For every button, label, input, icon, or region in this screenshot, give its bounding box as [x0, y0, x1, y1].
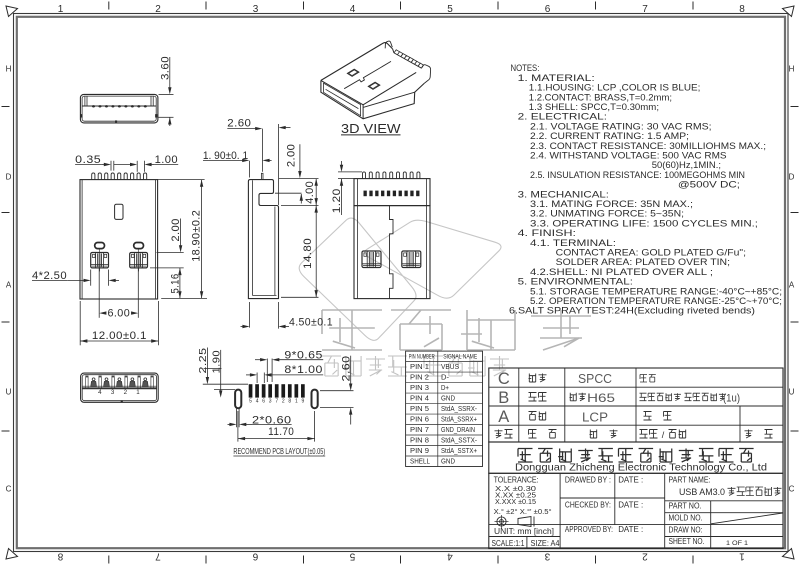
svg-text:4: 4: [256, 399, 259, 405]
svg-text:USB AM3.0: USB AM3.0: [679, 487, 725, 498]
svg-text:TOLERANCE:: TOLERANCE:: [494, 475, 539, 485]
svg-text:SCALE:1:1: SCALE:1:1: [492, 539, 525, 548]
svg-text:PIN 5: PIN 5: [410, 404, 429, 413]
svg-text:D: D: [6, 173, 12, 182]
view: side profile: [248, 180, 278, 299]
svg-text:5: 5: [349, 551, 355, 562]
svg-text:DRAWED BY :: DRAWED BY :: [565, 476, 611, 485]
svg-text:(1u): (1u): [723, 393, 740, 405]
svg-text:SHELL: SHELL: [410, 457, 430, 466]
svg-text:U: U: [789, 388, 795, 397]
svg-text:1: 1: [295, 399, 298, 405]
cn: 外壳: [529, 374, 536, 383]
svg-text:X.° ±2° X.°' ±0.5°: X.° ±2° X.°' ±0.5°: [494, 508, 552, 516]
svg-text:DATE :: DATE :: [618, 500, 643, 509]
svg-text:D+: D+: [441, 383, 449, 392]
svg-text:StdA_SSTX+: StdA_SSTX+: [441, 446, 477, 455]
center hole: [115, 204, 123, 219]
svg-text:2: 2: [282, 399, 285, 405]
3D tab upper: [385, 41, 392, 48]
svg-text:4.00: 4.00: [304, 181, 316, 204]
3D creases: [321, 80, 363, 118]
title block: [489, 473, 783, 548]
svg-text:SPCC: SPCC: [578, 371, 612, 386]
svg-text:14.80: 14.80: [302, 238, 314, 269]
back latch hole right: [402, 251, 421, 268]
cn: 黄铜 H65: [570, 393, 577, 401]
svg-text:SHEET NO.: SHEET NO.: [669, 537, 705, 546]
svg-text:6: 6: [545, 4, 551, 15]
svg-text:8: 8: [57, 551, 63, 562]
svg-text:2: 2: [642, 551, 648, 562]
svg-text:5: 5: [447, 4, 453, 15]
watermark small text 实物拍摄 品质保证: [332, 359, 337, 374]
pcb oval holes: [235, 390, 241, 409]
mating contacts: [92, 378, 95, 381]
svg-text:3D VIEW: 3D VIEW: [341, 121, 401, 136]
svg-text:6.SALT SPRAY TEST:24H(Exclud: 6.SALT SPRAY TEST:24H(Excluding riveted …: [509, 306, 755, 317]
svg-text:2: 2: [155, 4, 161, 15]
svg-text:H: H: [789, 65, 795, 74]
cn: 电镀/颜色: [640, 430, 648, 439]
svg-text:C: C: [789, 485, 795, 494]
svg-text:PIN 4: PIN 4: [410, 394, 429, 403]
svg-text:@500V DC;: @500V DC;: [678, 180, 740, 191]
mold no diagonal: [711, 513, 783, 524]
svg-text:GND: GND: [441, 394, 455, 403]
svg-text:StdA_SSTX-: StdA_SSTX-: [441, 436, 477, 445]
svg-text:1: 1: [136, 389, 140, 396]
svg-text:C: C: [498, 370, 510, 388]
cn: 序号: [495, 430, 503, 439]
svg-text:2.60: 2.60: [227, 117, 251, 129]
cn: 蓝 色: [644, 412, 652, 421]
svg-text:4.50±0.1: 4.50±0.1: [289, 317, 333, 329]
back latch hole left: [362, 251, 381, 268]
svg-text:PIN 3: PIN 3: [410, 383, 429, 392]
svg-text:PIN 8: PIN 8: [410, 436, 429, 445]
svg-text:11.70: 11.70: [268, 426, 294, 438]
view: front view body: [80, 180, 158, 299]
svg-text:4: 4: [447, 551, 453, 562]
back view 9 pins: [363, 172, 366, 179]
cn: 端子: [529, 393, 537, 402]
termination squares: [364, 191, 367, 197]
cn: 镀镍: [640, 375, 647, 383]
svg-text:3: 3: [253, 4, 259, 15]
svg-text:H: H: [6, 65, 12, 74]
border ticks left/right: [2, 106, 10, 108]
latch pills: [95, 243, 105, 249]
svg-text:D: D: [789, 173, 795, 182]
svg-text:Dongguan Zhicheng Electronic: Dongguan Zhicheng Electronic Technology …: [515, 463, 767, 474]
cn: 品 名: [529, 430, 537, 439]
svg-text:9: 9: [301, 399, 304, 405]
svg-text:PIN 6: PIN 6: [410, 415, 429, 424]
svg-text:DRAW NO:: DRAW NO:: [669, 525, 703, 534]
svg-text:8: 8: [739, 4, 745, 15]
svg-text:B: B: [498, 389, 509, 407]
svg-text:PIN NUMBER: PIN NUMBER: [409, 353, 435, 360]
svg-text:2: 2: [124, 389, 128, 396]
svg-text:18.90±0.2: 18.90±0.2: [190, 210, 202, 262]
cn company name 东莞市质成电子科技有限公司: [521, 451, 526, 461]
svg-text:PIN 1: PIN 1: [410, 362, 429, 371]
cn: 材 质: [590, 430, 597, 439]
svg-text:12.00±0.1: 12.00±0.1: [92, 330, 147, 342]
view: back view top block: [354, 179, 430, 206]
svg-text:GND: GND: [441, 457, 455, 466]
svg-text:1: 1: [739, 551, 745, 562]
cn: 基座: [529, 412, 537, 421]
watermark big text 质成电子: [333, 318, 355, 348]
svg-text:3: 3: [269, 399, 272, 405]
latch block right: [130, 253, 148, 268]
svg-text:DATE :: DATE :: [618, 476, 643, 485]
svg-text:RECOMMEND PCB LAYOUT(±0.05): RECOMMEND PCB LAYOUT(±0.05): [233, 446, 325, 456]
3D top holes: [347, 69, 359, 76]
svg-text:MOLD NO.: MOLD NO.: [669, 513, 703, 522]
svg-text:A: A: [6, 281, 12, 290]
corner centering arrows: [6, 6, 18, 17]
view: USB plug front face (top-left): [80, 94, 157, 123]
contact dots: [92, 105, 95, 107]
svg-text:3: 3: [544, 551, 550, 562]
svg-text:H65: H65: [587, 391, 615, 405]
svg-text:PIN 9: PIN 9: [410, 446, 429, 455]
svg-text:GND_DRAIN: GND_DRAIN: [441, 425, 475, 434]
svg-text:1: 1: [58, 4, 64, 15]
view: 3D isometric: [321, 43, 393, 81]
svg-text:6.00: 6.00: [108, 308, 131, 320]
svg-text:StdA_SSRX+: StdA_SSRX+: [441, 415, 477, 424]
svg-text:8: 8: [288, 399, 291, 405]
svg-text:7: 7: [275, 399, 278, 405]
svg-text:DATE :: DATE :: [618, 525, 643, 534]
watermark logo leaf 2: [365, 220, 501, 298]
company box: [489, 442, 783, 473]
svg-text:UNIT: mm [inch]: UNIT: mm [inch]: [494, 526, 554, 536]
svg-text:8*1.00: 8*1.00: [284, 364, 323, 376]
cn: 备 注: [745, 430, 753, 439]
svg-text:VBUS: VBUS: [441, 362, 459, 371]
dim 6.00: [98, 269, 100, 318]
svg-text:4: 4: [350, 4, 356, 15]
view: mating face: [81, 373, 159, 402]
watermark logo leaf 1: [299, 218, 416, 340]
svg-text:A: A: [789, 281, 795, 290]
dim 4.50±0.1: [249, 302, 251, 328]
svg-text:StdA_SSRX-: StdA_SSRX-: [441, 404, 477, 413]
svg-text:5: 5: [249, 399, 252, 405]
3D front opening inner: [324, 83, 361, 116]
svg-text:X.XXX ±0.15: X.XXX ±0.15: [495, 497, 536, 506]
svg-text:PIN 7: PIN 7: [410, 425, 429, 434]
svg-text:U: U: [6, 388, 12, 397]
dim 12.00: [79, 301, 81, 345]
projection symbol: [497, 517, 506, 526]
svg-text:D-: D-: [441, 373, 450, 382]
svg-text:SIZE: A4: SIZE: A4: [531, 539, 560, 548]
material table: [489, 368, 783, 442]
svg-text:CHECKED BY:: CHECKED BY:: [565, 500, 611, 509]
dim 2*0.60: [236, 408, 238, 427]
pcb pads: [249, 384, 253, 397]
svg-text:LCP: LCP: [582, 410, 608, 425]
svg-text:2.00: 2.00: [286, 144, 298, 167]
svg-text:7: 7: [642, 4, 648, 15]
svg-text:APPROVED BY:: APPROVED BY:: [565, 525, 613, 534]
pin table: [406, 351, 483, 466]
svg-text:PART NAME:: PART NAME:: [669, 476, 711, 485]
svg-text:PART NO.: PART NO.: [669, 502, 702, 511]
svg-text:SIGNAL NAME: SIGNAL NAME: [443, 353, 477, 360]
side pin tick: [261, 173, 263, 179]
svg-text:3: 3: [111, 389, 115, 396]
center seam: [390, 206, 394, 299]
3D silhouette right/bottom: [321, 80, 424, 118]
svg-text:4: 4: [98, 389, 102, 396]
border ticks top/bottom: [108, 2, 110, 10]
shell side ticks: [81, 114, 83, 117]
dim 11.70: [237, 411, 239, 442]
svg-text:7: 7: [155, 551, 161, 562]
3D teeth: [394, 50, 424, 68]
cn: 焊料区镀锡 接触区镀金 (1u): [640, 393, 647, 401]
svg-text:6: 6: [252, 551, 258, 562]
front view 9 pins: [92, 173, 95, 180]
back view body: [354, 206, 430, 299]
svg-text:PIN 2: PIN 2: [410, 373, 429, 382]
svg-text:1 OF 1: 1 OF 1: [726, 540, 749, 547]
svg-text:6: 6: [262, 399, 265, 405]
3D tab right: [422, 65, 431, 84]
3D seam: [344, 61, 391, 88]
svg-text:C: C: [6, 485, 12, 494]
svg-text:A: A: [498, 408, 509, 426]
cn: 沉板直脚中针: [728, 487, 736, 496]
latch block left: [91, 253, 109, 268]
